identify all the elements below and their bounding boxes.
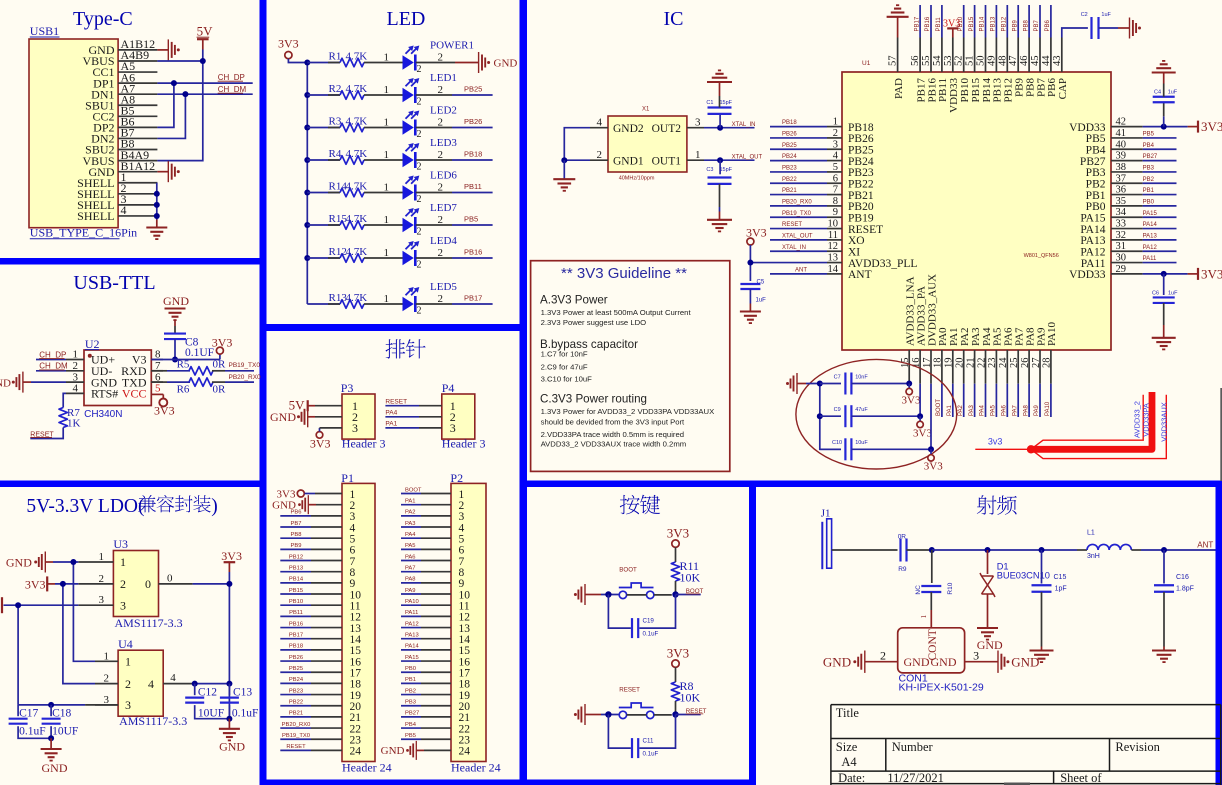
junction X1 gnd xyxy=(561,157,567,163)
svg-text:0.1uF: 0.1uF xyxy=(232,708,259,720)
svg-text:3V3: 3V3 xyxy=(212,336,233,350)
svg-text:8: 8 xyxy=(833,196,838,207)
svg-text:3V3: 3V3 xyxy=(667,526,689,541)
svg-text:PA10: PA10 xyxy=(1045,401,1051,416)
svg-text:2: 2 xyxy=(417,64,422,75)
USB1 pin A7 (DN1) xyxy=(118,93,157,95)
svg-text:51: 51 xyxy=(965,56,976,67)
svg-text:2: 2 xyxy=(438,181,444,193)
wire J1 to R9 xyxy=(832,549,898,551)
svg-text:27: 27 xyxy=(1031,358,1042,369)
svg-text:6: 6 xyxy=(833,173,838,184)
junction XTAL_IN xyxy=(717,125,723,131)
svg-text:PB21: PB21 xyxy=(782,188,797,194)
svg-text:PB5: PB5 xyxy=(1086,133,1106,145)
svg-text:PB1: PB1 xyxy=(1086,190,1106,202)
decoupling group ellipse xyxy=(796,359,957,469)
IC U1 W801 body xyxy=(842,72,1111,350)
junction VBUS xyxy=(200,58,206,64)
svg-text:VDD33: VDD33 xyxy=(1069,269,1106,281)
power 3V3 at C8 xyxy=(216,347,223,354)
U1 pin 8 (PB20) xyxy=(827,205,842,207)
svg-text:47uF: 47uF xyxy=(855,407,868,413)
svg-text:BOOT: BOOT xyxy=(619,566,637,573)
svg-text:PB24: PB24 xyxy=(782,154,797,160)
U1 pin 11 (XO) xyxy=(827,239,842,241)
svg-text:PAD: PAD xyxy=(893,78,905,99)
svg-text:RESET: RESET xyxy=(782,222,802,228)
svg-text:GND: GND xyxy=(494,58,518,70)
U1 pin 29 (VDD33) xyxy=(1111,273,1143,275)
svg-text:54: 54 xyxy=(932,55,943,66)
X1 pin 1 OUT1 wire XTAL_OUT xyxy=(687,159,704,161)
svg-text:AMS1117-3.3: AMS1117-3.3 xyxy=(119,714,187,728)
svg-text:2: 2 xyxy=(99,573,105,585)
svg-text:C10: C10 xyxy=(832,440,842,446)
capacitor C5 1uF xyxy=(740,283,760,285)
svg-text:P3: P3 xyxy=(341,381,354,395)
svg-text:1: 1 xyxy=(920,614,928,618)
svg-text:1: 1 xyxy=(384,116,390,128)
wire V3 to 3V3 xyxy=(151,359,220,361)
LED LED1 xyxy=(403,88,414,102)
ground right of C2 xyxy=(1129,18,1131,39)
svg-text:RESET: RESET xyxy=(619,686,640,693)
junction LED bus row 7 xyxy=(304,255,310,261)
svg-text:R12: R12 xyxy=(329,246,347,258)
svg-text:PB25: PB25 xyxy=(782,143,797,149)
U2 pin 4 (RTS#) xyxy=(66,392,84,394)
svg-text:XI: XI xyxy=(848,246,860,258)
svg-text:10K: 10K xyxy=(680,691,701,705)
capacitor C17 0.1uF xyxy=(17,705,19,716)
svg-text:PB20_RX0: PB20_RX0 xyxy=(282,722,311,728)
svg-text:PB24: PB24 xyxy=(848,156,874,168)
svg-text:37: 37 xyxy=(1116,173,1127,184)
junction RF 3 (C15) xyxy=(1039,547,1045,553)
svg-text:4: 4 xyxy=(73,383,79,395)
svg-text:P2: P2 xyxy=(450,471,463,485)
svg-text:GND: GND xyxy=(270,410,296,424)
svg-text:4.7K: 4.7K xyxy=(346,246,368,258)
USB1 pin A8 (SBU1) xyxy=(118,104,157,106)
ground under C16 xyxy=(1152,649,1176,651)
svg-text:PB20_RX0: PB20_RX0 xyxy=(782,200,812,206)
svg-text:PA5: PA5 xyxy=(405,543,416,549)
svg-text:2: 2 xyxy=(438,84,444,96)
svg-text:PA5: PA5 xyxy=(991,404,997,416)
ground under C3 xyxy=(707,219,732,221)
wire/label PA7 xyxy=(1017,384,1019,417)
svg-text:56: 56 xyxy=(910,56,921,67)
wire/label PA1 xyxy=(952,384,954,417)
svg-text:GND: GND xyxy=(931,655,957,669)
junction BOOT right xyxy=(672,591,678,597)
svg-text:1uF: 1uF xyxy=(1101,12,1111,18)
header P1 body xyxy=(342,483,375,761)
svg-text:2: 2 xyxy=(438,214,444,226)
U1 pin 42 (VDD33) xyxy=(1111,126,1143,128)
svg-text:PB19_TX0: PB19_TX0 xyxy=(229,362,261,369)
wire/label PB12 xyxy=(1006,5,1008,38)
svg-text:0R: 0R xyxy=(213,384,227,396)
svg-text:C16: C16 xyxy=(1176,574,1189,581)
section divider horizontal under USB-TTL xyxy=(0,481,260,488)
svg-text:RESET: RESET xyxy=(286,744,306,750)
junction LED bus row 3 xyxy=(304,125,310,131)
USB1 pin A5 (CC1) xyxy=(118,71,157,73)
inductor L1 3nH xyxy=(1077,549,1087,551)
U1 pin 37 (PB2) xyxy=(1111,182,1143,184)
USB1 pin B4A9 (VBUS) xyxy=(118,160,157,162)
LED LED4 xyxy=(403,251,414,265)
svg-text:20: 20 xyxy=(955,358,966,369)
U1 pin 4 (PB24) xyxy=(827,160,842,162)
junction LED bus row 4 xyxy=(304,157,310,163)
svg-text:2: 2 xyxy=(417,97,422,108)
wire X1 ground side xyxy=(564,128,590,161)
USB1 pin A4B9 (VBUS) xyxy=(118,60,157,62)
svg-text:13: 13 xyxy=(828,253,839,264)
wire/label PB17 xyxy=(919,5,921,38)
USB1 pin B1A12 (GND) xyxy=(118,171,157,173)
USB1 pin A1B12 (GND) xyxy=(118,49,157,51)
svg-text:PA15: PA15 xyxy=(1080,212,1105,224)
resistor R2 4.7K xyxy=(307,94,340,96)
svg-text:38: 38 xyxy=(1116,162,1127,173)
svg-text:PA11: PA11 xyxy=(1143,256,1157,262)
svg-text:1pF: 1pF xyxy=(1055,586,1067,593)
U1 pin 28 (PA10) xyxy=(1050,350,1052,384)
svg-text:1: 1 xyxy=(384,149,390,161)
junction SHELL 3 xyxy=(154,202,160,208)
wire U4 pin3 rail xyxy=(18,704,85,706)
svg-text:15pF: 15pF xyxy=(720,167,733,173)
title block frame xyxy=(831,705,1221,785)
svg-text:LED7: LED7 xyxy=(430,202,457,214)
svg-text:10K: 10K xyxy=(680,571,701,585)
svg-text:4.7K: 4.7K xyxy=(346,148,368,160)
svg-text:PB17: PB17 xyxy=(289,633,303,639)
ground above C4 xyxy=(1152,71,1176,73)
svg-text:PB25: PB25 xyxy=(464,84,482,93)
svg-text:3: 3 xyxy=(120,598,126,612)
svg-text:2: 2 xyxy=(104,673,110,685)
capacitor C13 0.1uF xyxy=(228,684,230,696)
svg-text:C9: C9 xyxy=(834,407,841,413)
section divider vertical right edge xyxy=(1216,483,1222,785)
ground under C6 xyxy=(1152,337,1176,339)
capacitor C2 1uF xyxy=(1090,17,1092,39)
wire CAP to C2 xyxy=(1062,28,1088,38)
wire/label PB1 xyxy=(1143,194,1177,196)
svg-text:PB14: PB14 xyxy=(289,577,304,583)
svg-text:3: 3 xyxy=(973,648,979,662)
USB1 pin 4 (SHELL) xyxy=(118,215,157,217)
svg-text:1: 1 xyxy=(695,149,701,161)
resistor R8 10K xyxy=(671,682,679,701)
svg-text:PA1: PA1 xyxy=(385,421,397,428)
LED LED6 xyxy=(403,185,414,199)
U3 pin 1 xyxy=(78,561,113,563)
svg-text:): ) xyxy=(211,496,218,517)
svg-text:PB20_RX0: PB20_RX0 xyxy=(229,374,262,381)
svg-text:5V-3.3V LDO(: 5V-3.3V LDO( xyxy=(26,496,144,517)
svg-text:2: 2 xyxy=(417,260,422,271)
svg-text:PB12: PB12 xyxy=(1002,16,1008,31)
svg-text:PB22: PB22 xyxy=(289,700,303,706)
ground under C5 xyxy=(740,310,761,312)
svg-text:VDD33: VDD33 xyxy=(1069,122,1106,134)
wire/label PB22 xyxy=(770,182,827,184)
junction C13 bottom xyxy=(226,716,232,722)
resistor R4 4.7K xyxy=(307,159,340,161)
svg-text:0.1UF: 0.1UF xyxy=(185,347,214,359)
U1 pin 23 (PA5) xyxy=(995,350,997,384)
svg-text:R5: R5 xyxy=(177,359,190,371)
svg-text:40: 40 xyxy=(1116,139,1127,150)
svg-text:35: 35 xyxy=(1116,196,1127,207)
svg-text:R1: R1 xyxy=(329,50,342,62)
LED LED5 xyxy=(403,297,414,311)
svg-text:26: 26 xyxy=(1020,358,1031,369)
svg-text:3: 3 xyxy=(73,371,79,383)
svg-text:3V3: 3V3 xyxy=(310,437,331,451)
svg-text:R2: R2 xyxy=(329,83,342,95)
U4 pin 2 xyxy=(95,683,118,685)
svg-text:36: 36 xyxy=(1116,185,1127,196)
connector CON1 body xyxy=(898,628,965,673)
svg-text:R6: R6 xyxy=(177,384,190,396)
svg-text:A.3V3 Power: A.3V3 Power xyxy=(540,294,608,307)
svg-text:GND2: GND2 xyxy=(613,123,644,135)
svg-text:1: 1 xyxy=(73,349,79,361)
U2 pin 8 (V3) xyxy=(151,359,163,361)
svg-text:PB0: PB0 xyxy=(1086,201,1106,213)
U1 pin 35 (PB0) xyxy=(1111,205,1143,207)
wire/label PB3 xyxy=(1143,171,1177,173)
U1 pin 55 (PB16) xyxy=(930,38,932,73)
svg-text:AVDD33_PLL: AVDD33_PLL xyxy=(848,258,917,270)
wire CH_DP to U2 xyxy=(36,359,66,361)
junction AVDD33_PLL xyxy=(747,260,753,266)
power 3V3 at pin29 xyxy=(1188,273,1198,275)
section divider horizontal under Type-C xyxy=(0,258,260,265)
svg-text:C5: C5 xyxy=(757,279,765,285)
svg-text:PB7: PB7 xyxy=(1034,19,1040,31)
U1 pin 24 (PA6) xyxy=(1006,350,1008,384)
junction VIN rail xyxy=(15,602,21,608)
header P2 body xyxy=(451,483,486,761)
svg-text:PB1: PB1 xyxy=(405,677,416,683)
wire/label XTAL_OUT xyxy=(770,239,827,241)
svg-text:4.7K: 4.7K xyxy=(346,213,368,225)
U1 pin 47 (PB9) xyxy=(1017,38,1019,73)
svg-text:SHELL: SHELL xyxy=(77,209,114,223)
red 3V3 power-routing bus xyxy=(975,448,1031,450)
svg-text:GND: GND xyxy=(381,745,405,757)
svg-text:2.C9 for 47uF: 2.C9 for 47uF xyxy=(541,363,588,372)
section divider vertical 1 xyxy=(260,0,267,785)
svg-text:Header 24: Header 24 xyxy=(342,760,392,774)
svg-text:PB11: PB11 xyxy=(464,182,482,191)
svg-text:24: 24 xyxy=(998,357,1009,368)
svg-text:XTAL_OUT: XTAL_OUT xyxy=(782,234,813,240)
svg-text:PA14: PA14 xyxy=(1143,222,1158,228)
junction RF 1 xyxy=(929,547,935,553)
svg-text:PB26: PB26 xyxy=(782,132,797,138)
wire/label PB11 xyxy=(941,5,943,38)
svg-text:3V3: 3V3 xyxy=(924,460,943,472)
wire SHELL net xyxy=(156,183,158,220)
svg-text:XTAL_OUT: XTAL_OUT xyxy=(732,155,763,161)
U2 pin 6 (TXD) xyxy=(151,381,163,383)
svg-text:0.1uF: 0.1uF xyxy=(643,631,659,638)
svg-text:PA6: PA6 xyxy=(1002,404,1008,416)
svg-text:C17: C17 xyxy=(19,708,38,720)
svg-text:ANT: ANT xyxy=(795,267,807,273)
wire/label PB26 xyxy=(770,137,827,139)
U1 pin 12 (XI) xyxy=(827,250,842,252)
capacitor C10 10uF xyxy=(820,448,841,450)
wire/label PA5 xyxy=(995,384,997,417)
U3 output pin 0 xyxy=(159,583,193,585)
svg-text:C19: C19 xyxy=(643,618,655,625)
svg-text:LED: LED xyxy=(387,8,426,30)
ground at USB1 pin A1B12 xyxy=(157,49,168,51)
power 3V3 at U2 VCC xyxy=(151,393,163,395)
svg-text:1uF: 1uF xyxy=(1168,90,1178,96)
wire/label PA6 xyxy=(1006,384,1008,417)
junction pin16 xyxy=(917,413,923,419)
svg-text:3nH: 3nH xyxy=(1087,553,1100,560)
svg-text:22: 22 xyxy=(976,358,987,369)
junction rail C7 xyxy=(817,381,823,387)
svg-text:41: 41 xyxy=(1116,128,1127,139)
capacitor C19 0.1uF xyxy=(608,595,631,629)
wire/label PA3 xyxy=(974,384,976,417)
svg-text:NC: NC xyxy=(915,585,922,595)
svg-text:Header 3: Header 3 xyxy=(342,437,386,451)
svg-text:PA12: PA12 xyxy=(405,621,419,627)
section title RF xyxy=(977,495,1017,515)
U1 pin 50 (PB14) xyxy=(985,38,987,73)
junction BOOT left xyxy=(605,591,611,597)
svg-text:PB24: PB24 xyxy=(289,677,304,683)
svg-text:PB25: PB25 xyxy=(848,144,874,156)
svg-text:P1: P1 xyxy=(341,471,354,485)
svg-text:PB5: PB5 xyxy=(405,733,416,739)
svg-text:PB4: PB4 xyxy=(1086,144,1106,156)
wire net PB11 xyxy=(416,192,452,194)
LED LED3 xyxy=(403,153,414,167)
svg-text:PB21: PB21 xyxy=(289,711,303,717)
junction LED bus row 1 xyxy=(304,60,310,66)
svg-text:2: 2 xyxy=(417,162,422,173)
capacitor C12 10UF xyxy=(194,684,196,696)
svg-text:PA12: PA12 xyxy=(1143,245,1158,251)
P4 pin 2 wire PA4 xyxy=(385,416,419,418)
svg-text:Title: Title xyxy=(836,706,860,720)
svg-text:PA2: PA2 xyxy=(405,510,416,516)
connector USB1 body xyxy=(29,39,118,228)
svg-text:50: 50 xyxy=(976,56,987,67)
svg-text:3V3: 3V3 xyxy=(913,427,932,439)
U2 pin 3 (GND) xyxy=(66,381,84,383)
svg-text:CH_DM: CH_DM xyxy=(218,85,247,94)
svg-text:PB25: PB25 xyxy=(289,666,303,672)
USB1 pin A6 (DP1) xyxy=(118,82,157,84)
svg-text:RESET: RESET xyxy=(848,224,883,236)
USB1 pin B7 (DN2) xyxy=(118,137,157,139)
svg-text:5: 5 xyxy=(833,162,838,173)
svg-text:2: 2 xyxy=(438,51,444,63)
wire to ground xyxy=(416,62,455,64)
ground left of C7 xyxy=(786,382,789,385)
svg-text:KH-IPEX-K501-29: KH-IPEX-K501-29 xyxy=(899,682,984,694)
svg-text:LED3: LED3 xyxy=(430,137,457,149)
svg-text:PA13: PA13 xyxy=(1080,235,1105,247)
svg-text:GND: GND xyxy=(0,377,11,389)
svg-text:PB16: PB16 xyxy=(925,16,931,31)
svg-text:1: 1 xyxy=(99,551,105,563)
svg-text:2: 2 xyxy=(438,116,444,128)
svg-text:C7: C7 xyxy=(834,374,841,380)
svg-text:PA12: PA12 xyxy=(1080,246,1105,258)
LED POWER1 xyxy=(403,55,414,69)
wire net PB18 xyxy=(416,159,452,161)
U2 pin 1 (UD+) xyxy=(66,359,84,361)
USB1 pin 2 (SHELL) xyxy=(118,193,157,195)
terminal 5V input edge xyxy=(1,597,3,613)
resistor R7 1K xyxy=(63,393,66,407)
LED LED2 xyxy=(403,120,414,134)
svg-text:19: 19 xyxy=(944,358,955,369)
U1 pin 6 (PB22) xyxy=(827,182,842,184)
svg-text:4.7K: 4.7K xyxy=(346,180,368,192)
svg-text:3: 3 xyxy=(99,594,105,606)
wire VDD33 pin29 xyxy=(1143,273,1188,275)
capacitor C4 1uF xyxy=(1163,116,1165,126)
svg-text:AVDD33_2: AVDD33_2 xyxy=(1132,401,1141,438)
svg-text:1: 1 xyxy=(125,655,131,669)
svg-text:PB15: PB15 xyxy=(289,588,303,594)
svg-text:PB4: PB4 xyxy=(1143,143,1155,149)
svg-text:0: 0 xyxy=(145,577,151,591)
ground under C18 xyxy=(50,738,52,748)
svg-text:CH_DP: CH_DP xyxy=(39,350,66,359)
svg-text:PB1: PB1 xyxy=(1143,188,1155,194)
junction LED bus row 2 xyxy=(304,92,310,98)
junction output rail pin4 xyxy=(226,681,232,687)
svg-text:1.C7 for 10nF: 1.C7 for 10nF xyxy=(541,350,588,359)
svg-text:5V: 5V xyxy=(197,23,214,38)
ground at USB1 shell xyxy=(156,220,158,228)
svg-text:U3: U3 xyxy=(113,537,128,551)
svg-text:GND: GND xyxy=(904,655,930,669)
U1 pin 1 (PB18) xyxy=(827,126,842,128)
svg-text:2: 2 xyxy=(438,293,444,305)
svg-text:R13: R13 xyxy=(329,292,348,304)
partial text at bottom edge xyxy=(1004,783,1030,785)
svg-text:POWER1: POWER1 xyxy=(430,40,474,52)
svg-text:USB_TYPE_C_16Pin: USB_TYPE_C_16Pin xyxy=(30,226,137,240)
svg-text:BOOT: BOOT xyxy=(405,487,422,493)
capacitor C15 1pF xyxy=(1041,550,1043,584)
svg-text:L1: L1 xyxy=(1087,530,1095,537)
svg-text:3: 3 xyxy=(450,421,456,435)
wire C7 rail xyxy=(806,384,841,450)
